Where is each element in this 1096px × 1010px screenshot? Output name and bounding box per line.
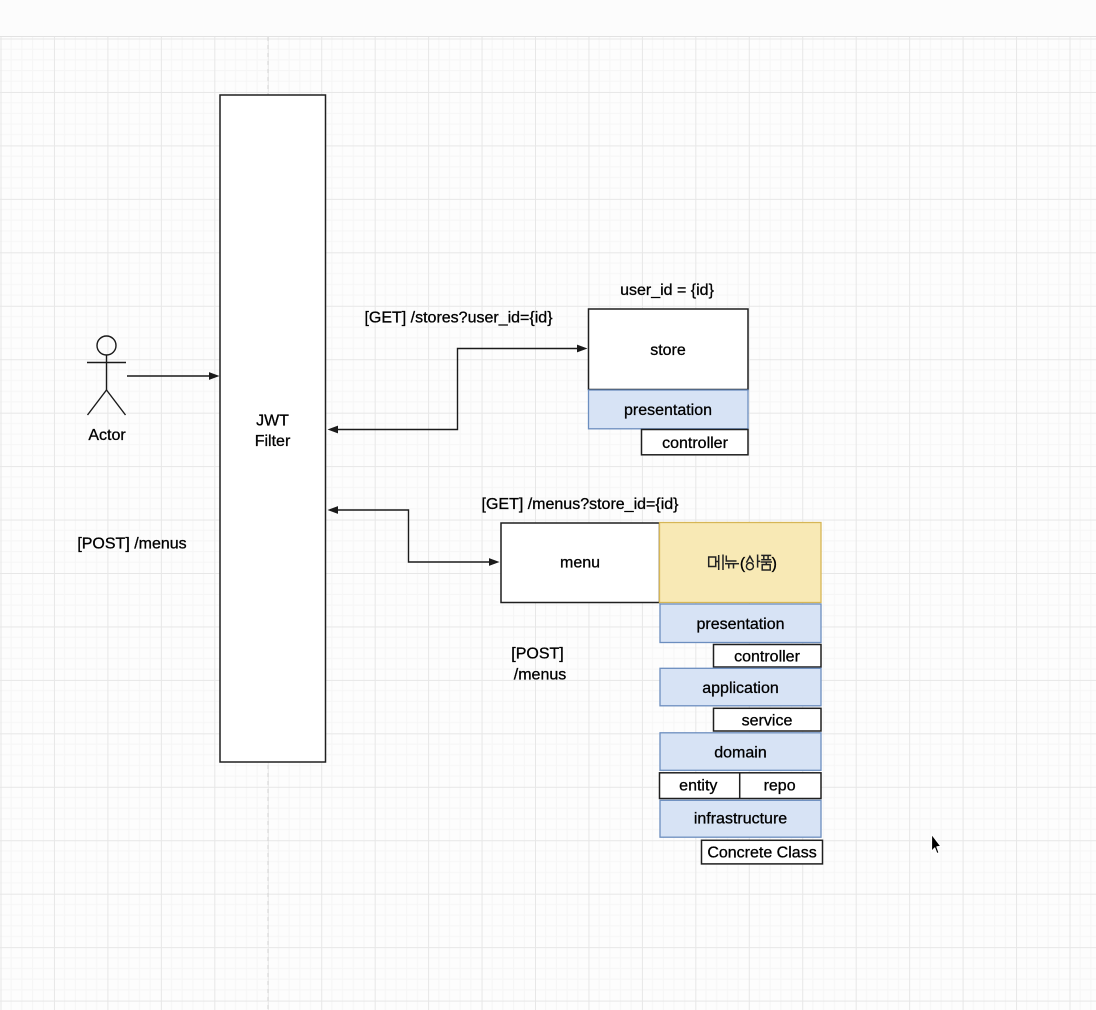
arrow actor to JWT <box>127 372 220 380</box>
box JWT Filter <box>220 95 326 762</box>
box presentation (menu) <box>660 604 821 643</box>
svg-text:[POST] /menus: [POST] /menus <box>77 536 186 553</box>
box application <box>660 668 821 706</box>
canvas top edge line <box>0 36 1096 38</box>
svg-text:[GET] /stores?user_id={id}: [GET] /stores?user_id={id} <box>364 310 553 327</box>
svg-text:repo: repo <box>764 778 796 795</box>
svg-text:controller: controller <box>662 435 728 452</box>
품 <box>761 554 771 556</box>
box entity / repo <box>660 773 822 799</box>
svg-text:Actor: Actor <box>88 427 126 444</box>
arrow JWT to store (zigzag, double-headed) <box>328 345 588 434</box>
svg-text:service: service <box>742 713 793 730</box>
box Concrete Class <box>702 840 823 864</box>
svg-text:entity: entity <box>679 778 717 795</box>
svg-text:application: application <box>702 680 779 697</box>
svg-text:presentation: presentation <box>696 616 784 633</box>
svg-text:menu: menu <box>560 555 600 572</box>
mouse cursor <box>932 834 941 854</box>
svg-text:[POST]: [POST] <box>511 646 563 663</box>
svg-text:controller: controller <box>734 649 800 666</box>
svg-text:presentation: presentation <box>624 402 712 419</box>
svg-text:(: ( <box>740 556 746 573</box>
top strip (window background above canvas) <box>0 0 1096 37</box>
box menu <box>501 523 660 603</box>
svg-text:): ) <box>772 556 777 573</box>
svg-text:store: store <box>650 342 686 359</box>
box infrastructure <box>660 800 821 837</box>
box controller (store) <box>642 430 749 455</box>
svg-text:/menus: /menus <box>514 667 566 684</box>
svg-text:user_id = {id}: user_id = {id} <box>620 282 715 299</box>
box controller (menu) <box>714 645 822 668</box>
svg-text:JWT: JWT <box>256 413 289 430</box>
hangul 메뉴(상품) drawn as strokes <box>709 555 772 571</box>
상 <box>746 556 753 562</box>
svg-text:Filter: Filter <box>255 433 291 450</box>
뉴 <box>726 556 736 562</box>
arrow JWT to menu (zigzag, double-headed) <box>328 506 500 566</box>
box domain <box>660 733 821 771</box>
label [POST] /menus (two lines) <box>511 646 566 684</box>
page boundary dashed line <box>267 37 269 1010</box>
actor <box>87 336 126 415</box>
box service <box>714 708 822 731</box>
box store <box>589 309 749 390</box>
box 메뉴(상품) yellow <box>660 523 822 603</box>
svg-text:Concrete Class: Concrete Class <box>707 845 816 862</box>
svg-text:domain: domain <box>714 745 766 762</box>
svg-text:[GET] /menus?store_id={id}: [GET] /menus?store_id={id} <box>482 496 680 513</box>
메 <box>709 557 716 567</box>
svg-text:infrastructure: infrastructure <box>694 811 787 828</box>
box presentation (store) <box>589 390 749 429</box>
